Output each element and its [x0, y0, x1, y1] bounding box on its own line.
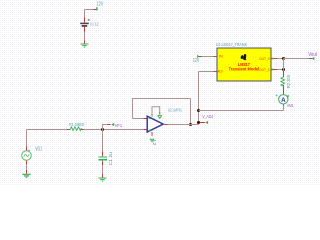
wire feedback loop right leg — [190, 99, 192, 125]
node ammeter-return junction dot — [197, 109, 200, 112]
wire VF1 pin red segment — [107, 124, 111, 126]
wire op-amp minus input red stub — [144, 118, 147, 120]
wire Vout horizontal — [284, 58, 310, 60]
svg-text:12V: 12V — [193, 58, 200, 64]
wire op-amp output to corner — [168, 124, 199, 126]
wire IN red segment left — [199, 56, 202, 58]
resistor R1 zigzag — [70, 127, 82, 131]
wire V1 top red end segment — [94, 9, 97, 11]
op-amp V+ jumper red tip — [159, 112, 161, 114]
LM317 macro box U1 — [217, 48, 271, 81]
wire R1 right red stub — [81, 129, 84, 131]
battery V1 — [80, 23, 89, 26]
op-amp U2 triangle — [147, 116, 163, 132]
wire V1 red stub above ground — [84, 41, 86, 44]
node VF1 green tick — [111, 123, 114, 126]
node VF1 junction dot — [101, 128, 104, 131]
ground below VG1 — [22, 174, 30, 177]
wire feedback loop left leg and top — [133, 99, 191, 119]
node 12V tick (top) — [96, 7, 98, 10]
wire OUT_0 red stub — [274, 58, 277, 60]
node V_ADJ pin junction dot — [197, 121, 200, 124]
node Vout green tick — [311, 57, 314, 60]
svg-text:OUT_0: OUT_0 — [259, 56, 270, 61]
wire V_ADJ vertical riser — [198, 72, 200, 125]
svg-text:IN: IN — [219, 54, 223, 59]
wire signal from R1 to node VF1 — [84, 129, 103, 131]
wire ammeter top red stub — [283, 91, 285, 95]
wire IN red stub at LM317 — [214, 56, 216, 58]
wire V1 red stub below battery — [84, 27, 86, 31]
jumper symbol at V+ (green down arrow) — [157, 116, 162, 119]
wire VG1 red stub above ground — [26, 170, 28, 173]
wire V1 vertical upper — [84, 10, 86, 18]
wire R1 left red stub — [67, 129, 70, 131]
TI logo inside U1 — [241, 54, 247, 60]
battery V1 plus marker square — [88, 19, 90, 21]
wire ammeter bottom red stub — [283, 104, 285, 106]
wire Vout red end segment — [309, 58, 312, 60]
node OUT_1 junction dot — [282, 68, 285, 71]
ammeter AM1 circle — [279, 95, 288, 104]
wire op-amp output red stub — [165, 124, 168, 126]
wire ADJ horizontal to LM317 — [199, 71, 214, 73]
wire R2 bottom red stub — [283, 85, 285, 91]
svg-text:Transient Model: Transient Model — [229, 66, 260, 71]
source VG1 — [22, 151, 32, 161]
op-amp U2 V+ pin red stub — [151, 115, 153, 117]
wire signal from VG1 corner to R1 — [27, 129, 68, 131]
ground below C1 — [99, 178, 107, 181]
wire signal from node VF1 to op-amp plus input — [103, 129, 144, 131]
wire ADJ red stub at LM317 — [214, 71, 216, 73]
svg-text:VG1: VG1 — [35, 147, 42, 153]
capacitor C1 plates — [99, 156, 108, 162]
svg-text:R2 200: R2 200 — [286, 74, 291, 88]
wire op-amp plus input red stub — [144, 129, 147, 131]
wire op-amp minus input from feedback — [133, 118, 144, 120]
svg-text:VF1: VF1 — [115, 123, 123, 128]
pin OUT_1 green tick at box — [272, 69, 275, 71]
resistor R2 zigzag — [281, 77, 285, 86]
svg-text:U2 LM741: U2 LM741 — [168, 107, 182, 112]
op-amp U2 V- pin red stub — [151, 132, 153, 136]
svg-text:12V: 12V — [96, 2, 104, 8]
svg-text:A: A — [281, 97, 286, 104]
ground below V1 — [81, 44, 89, 47]
wire V1 red stub above battery — [84, 18, 86, 23]
svg-text:V1 12: V1 12 — [90, 22, 99, 28]
svg-text:C1 2u: C1 2u — [108, 152, 113, 166]
wire OUT_1 to junction — [277, 69, 284, 71]
wire OUT_0 to junction — [277, 58, 284, 60]
wire VG1 red stub above source — [26, 147, 28, 151]
wire VG1 vertical lower — [26, 164, 28, 170]
wire R2 chain vertical — [283, 59, 285, 72]
wire C1 red stub above plates — [102, 152, 104, 156]
svg-text:AM1: AM1 — [287, 103, 294, 108]
svg-text:12: 12 — [152, 139, 157, 146]
wire ammeter return vertical to ammeter — [283, 106, 285, 111]
op-amp U2 plus input mark — [149, 129, 151, 131]
ammeter AM1 plus mark — [276, 95, 278, 97]
node V_ADJ green tick — [205, 121, 208, 124]
wire R2 top red stub — [283, 71, 285, 77]
wire VG1 vertical upper — [26, 130, 28, 147]
svg-text:OUT_1: OUT_1 — [259, 67, 270, 72]
pin ADJ green tick at box — [215, 71, 217, 73]
wire ammeter return horizontal — [199, 110, 284, 112]
pin OUT_0 green tick at box — [272, 58, 275, 60]
wire V1 vertical lower — [84, 32, 86, 41]
svg-text:U1 LM317_TRANS: U1 LM317_TRANS — [216, 42, 247, 47]
source VG1 plus mark — [28, 150, 30, 152]
svg-text:R1 1MEG: R1 1MEG — [69, 122, 84, 127]
pin IN green tick at box — [215, 56, 217, 58]
ammeter AM1 pin mark right — [287, 95, 289, 97]
node OUT_0 junction dot — [282, 57, 285, 60]
op-amp U2 minus input mark — [149, 118, 151, 120]
node feedback-output junction dot — [189, 123, 192, 126]
jumper symbol at V- (green) — [150, 139, 154, 141]
node 12V tick at LM317 IN — [197, 55, 199, 59]
grid background — [0, 0, 320, 185]
svg-text:ADJ: ADJ — [218, 69, 223, 74]
wire C1 vertical lower — [102, 165, 104, 175]
wire C1 vertical upper — [102, 130, 104, 152]
wire VF1 pin stub — [103, 125, 108, 130]
wire C1 red stub below plates — [102, 161, 104, 166]
wire V_ADJ pin red segment — [200, 122, 205, 124]
wire C1 red stub above ground — [102, 175, 104, 178]
wire op-amp V+ jumper loop — [152, 107, 160, 114]
svg-text:V_ADJ: V_ADJ — [202, 114, 213, 119]
wire V1 top horizontal to 12V label — [85, 9, 94, 11]
wire OUT_1 red stub — [274, 69, 277, 71]
wire VG1 red stub below source — [26, 161, 28, 165]
wire IN horizontal — [202, 56, 214, 58]
svg-text:Vout: Vout — [308, 52, 317, 58]
